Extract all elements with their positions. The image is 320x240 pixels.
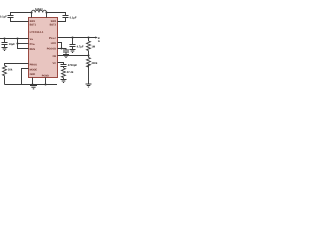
wire LDO cap to ground [65, 53, 67, 55]
node PGND junction [44, 83, 46, 85]
resistor R2 47.4k [62, 68, 66, 78]
node input cap junction [3, 37, 5, 39]
wire input cap stem [4, 39, 6, 43]
svg-text:PGND: PGND [42, 75, 49, 78]
svg-text:SW2: SW2 [51, 20, 57, 23]
svg-text:LDO: LDO [51, 42, 56, 45]
svg-text:0.1µF: 0.1µF [70, 16, 77, 19]
svg-text:PVOUT: PVOUT [49, 37, 57, 40]
output arrow [95, 36, 97, 38]
svg-text:PVIN: PVIN [30, 43, 36, 46]
resistor R1 20k [3, 66, 7, 76]
ground (LDO cap) [63, 55, 69, 58]
svg-text:4700pF: 4700pF [68, 64, 78, 67]
svg-text:10µF: 10µF [9, 43, 16, 46]
svg-text:BST1: BST1 [30, 24, 37, 27]
svg-text:PGOOD: PGOOD [47, 47, 57, 50]
wire SW2 to BST2 cap [47, 13, 66, 16]
wire LDO pin [58, 43, 62, 49]
svg-text:1A: 1A [98, 40, 100, 43]
svg-text:0.1µF: 0.1µF [0, 16, 7, 19]
wire output cap to ground [72, 47, 74, 50]
resistor R3 1M [87, 41, 91, 51]
wire FB top resistor stem [88, 38, 90, 42]
wire ground rail [5, 84, 58, 86]
svg-text:VC: VC [53, 62, 57, 65]
wire FB pin [58, 55, 89, 57]
node FB divider junction [87, 36, 89, 38]
wire VC pin [58, 63, 64, 65]
svg-text:SW1: SW1 [30, 20, 36, 23]
node FB junction [87, 54, 89, 56]
background [0, 0, 100, 100]
capacitor C4 4.7uF output [70, 45, 76, 47]
wire SW2 to inductor [46, 13, 48, 18]
svg-text:RUN: RUN [30, 48, 36, 51]
svg-text:LTC3114-1: LTC3114-1 [30, 30, 44, 34]
svg-text:6.8µH: 6.8µH [35, 7, 43, 11]
wire PVIN stub [18, 43, 29, 45]
svg-text:4.7µF: 4.7µF [77, 46, 84, 49]
wire MODE to rail [22, 69, 29, 85]
node GND junction [31, 83, 33, 85]
ground (FB divider) [86, 84, 92, 87]
capacitor C3 10uF input [2, 43, 8, 45]
svg-text:BST2: BST2 [50, 24, 57, 27]
capacitor C1 0.1uF (BST1) [8, 16, 14, 18]
capacitor C5 LDO bypass [63, 50, 69, 52]
svg-text:FB: FB [53, 55, 57, 58]
capacitor C2 0.1uF (BST2) [63, 16, 69, 18]
wire BST2 cap to BST2 pin [58, 18, 66, 22]
ground (comp network) [61, 80, 67, 83]
node output cap junction [71, 36, 73, 38]
ground (input cap) [2, 48, 8, 51]
wire VIN rail [18, 39, 29, 49]
capacitor C6 4700pF [61, 65, 67, 67]
node SW2 junction [45, 11, 47, 13]
node PVIN junction [16, 42, 18, 44]
wire output cap stem [72, 38, 74, 45]
wire input cap to ground [4, 45, 6, 48]
wire FB bottom resistor to ground [88, 64, 90, 84]
wire VIN input [0, 38, 29, 40]
wire comp cap to resistor [63, 67, 65, 68]
wire PVOUT rail [58, 37, 96, 39]
svg-text:PROG: PROG [30, 63, 37, 66]
wire PGND stub [45, 78, 47, 85]
wire GND stub [32, 78, 34, 85]
resistor R4 400k [87, 58, 91, 68]
wire PROG to resistor [5, 64, 29, 66]
wire SW1 to BST1 cap [11, 13, 32, 16]
wire between FB resistors [88, 51, 90, 58]
inductor L1 6.8uH [32, 10, 47, 12]
node VIN rail junction [16, 37, 18, 39]
ground (output cap) [70, 50, 76, 53]
wire comp resistor to ground [63, 78, 65, 80]
svg-text:400k: 400k [91, 62, 97, 65]
svg-text:GND: GND [30, 73, 36, 76]
ground (main rail) [30, 86, 37, 89]
IC U1 LTC3114-1 body [29, 18, 58, 78]
svg-text:47.4k: 47.4k [67, 71, 74, 74]
wire BST1 cap to BST1 pin [11, 18, 29, 22]
svg-text:MODE: MODE [30, 68, 38, 71]
node LDO/PGOOD junction [60, 47, 62, 49]
svg-text:20k: 20k [8, 69, 13, 72]
node SW1 junction [30, 11, 32, 13]
wire PGOOD pin [58, 49, 67, 50]
wire resistor to rail [4, 76, 6, 85]
wire SW1 to inductor [31, 13, 33, 18]
